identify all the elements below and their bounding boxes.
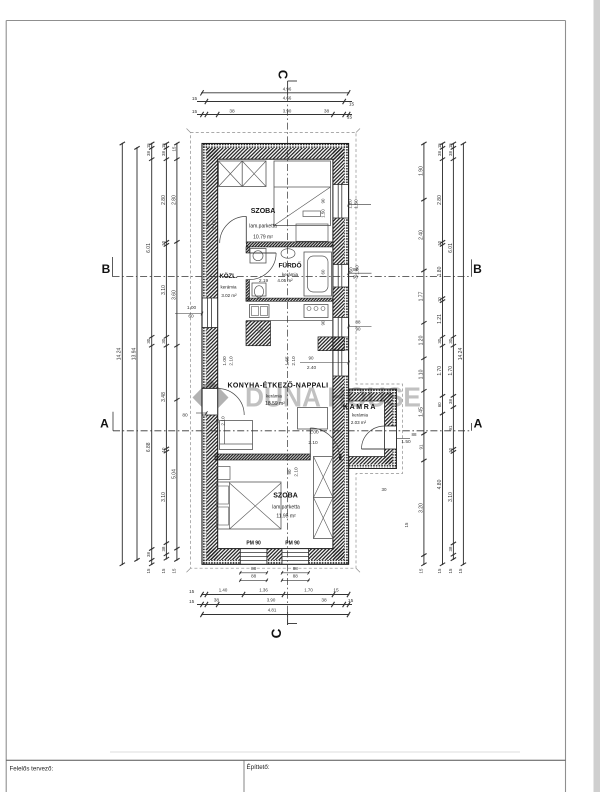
svg-text:Építtető:: Építtető: xyxy=(247,764,270,771)
svg-text:6.01: 6.01 xyxy=(448,243,454,253)
svg-text:15: 15 xyxy=(458,568,463,573)
svg-text:38: 38 xyxy=(321,598,327,604)
svg-text:14.24: 14.24 xyxy=(458,348,464,361)
svg-text:15: 15 xyxy=(448,568,453,573)
svg-text:1.70: 1.70 xyxy=(448,366,454,376)
svg-text:2.80: 2.80 xyxy=(171,195,177,205)
svg-text:88: 88 xyxy=(355,320,361,325)
svg-text:38: 38 xyxy=(324,108,330,114)
svg-text:1.00: 1.00 xyxy=(309,430,319,436)
svg-text:90: 90 xyxy=(287,469,292,475)
svg-text:91: 91 xyxy=(418,444,423,449)
svg-text:88: 88 xyxy=(293,574,299,579)
svg-text:1.00: 1.00 xyxy=(187,305,197,311)
svg-text:2.10: 2.10 xyxy=(221,416,227,426)
svg-text:15: 15 xyxy=(347,115,353,121)
svg-text:30: 30 xyxy=(437,338,442,343)
svg-text:38: 38 xyxy=(448,399,453,404)
svg-text:15: 15 xyxy=(161,568,166,573)
svg-text:90: 90 xyxy=(321,198,326,203)
svg-text:90: 90 xyxy=(355,327,361,332)
svg-text:KONYHA-ÉTKEZŐ-NAPPALI: KONYHA-ÉTKEZŐ-NAPPALI xyxy=(228,381,329,390)
svg-text:2.10: 2.10 xyxy=(308,440,318,446)
svg-text:15: 15 xyxy=(171,568,176,573)
svg-text:3.10: 3.10 xyxy=(161,285,167,295)
svg-text:15: 15 xyxy=(418,568,423,573)
svg-text:2.40: 2.40 xyxy=(307,365,317,371)
svg-text:38: 38 xyxy=(146,552,151,557)
svg-text:3.10: 3.10 xyxy=(448,492,454,502)
svg-text:15: 15 xyxy=(448,143,453,148)
svg-text:1.50: 1.50 xyxy=(401,439,411,445)
svg-text:30: 30 xyxy=(448,338,453,343)
svg-text:88: 88 xyxy=(251,574,257,579)
svg-text:15: 15 xyxy=(348,598,354,604)
svg-text:A: A xyxy=(100,417,109,431)
svg-text:38: 38 xyxy=(448,546,453,551)
svg-text:15: 15 xyxy=(189,589,195,595)
svg-text:A: A xyxy=(474,417,483,431)
svg-text:lam.parketta: lam.parketta xyxy=(249,224,277,230)
svg-text:4.66: 4.66 xyxy=(283,95,292,100)
svg-text:88: 88 xyxy=(251,566,257,571)
svg-text:C: C xyxy=(269,628,284,638)
svg-text:30: 30 xyxy=(146,338,151,343)
svg-text:KÖZL.: KÖZL. xyxy=(220,273,238,280)
svg-text:1.77: 1.77 xyxy=(418,291,424,301)
svg-text:2.10: 2.10 xyxy=(294,467,300,477)
svg-text:88: 88 xyxy=(411,432,417,437)
svg-text:1.65: 1.65 xyxy=(285,356,291,366)
svg-text:3.02 m²: 3.02 m² xyxy=(221,293,237,298)
svg-text:15: 15 xyxy=(404,522,409,527)
svg-text:88: 88 xyxy=(293,566,299,571)
svg-text:15: 15 xyxy=(349,102,355,108)
svg-text:10: 10 xyxy=(437,297,442,302)
svg-text:60: 60 xyxy=(188,314,194,320)
svg-text:38: 38 xyxy=(448,151,453,156)
svg-text:10.79 m²: 10.79 m² xyxy=(253,235,273,241)
svg-text:10: 10 xyxy=(161,447,166,452)
svg-text:90: 90 xyxy=(321,320,326,325)
svg-text:3.90: 3.90 xyxy=(267,598,276,603)
svg-text:lam.parketta: lam.parketta xyxy=(272,505,300,511)
svg-text:15: 15 xyxy=(333,588,339,594)
svg-text:4.05 m²: 4.05 m² xyxy=(277,278,293,283)
svg-text:11.95 m²: 11.95 m² xyxy=(276,514,296,520)
svg-text:1.70: 1.70 xyxy=(437,366,443,376)
svg-text:90: 90 xyxy=(206,222,211,228)
svg-text:15: 15 xyxy=(437,568,442,573)
svg-text:60: 60 xyxy=(437,402,442,407)
svg-text:30: 30 xyxy=(381,487,387,492)
svg-text:Felelős tervező:: Felelős tervező: xyxy=(10,766,54,773)
svg-text:4.96: 4.96 xyxy=(283,87,292,92)
svg-text:15: 15 xyxy=(161,143,166,148)
svg-text:C: C xyxy=(276,70,291,79)
svg-text:1.10: 1.10 xyxy=(418,369,424,379)
svg-text:1.20: 1.20 xyxy=(418,335,424,345)
svg-text:15: 15 xyxy=(189,599,195,605)
svg-text:90: 90 xyxy=(215,418,220,424)
svg-text:15: 15 xyxy=(192,109,198,115)
svg-text:38: 38 xyxy=(214,598,220,604)
svg-text:4.81: 4.81 xyxy=(268,607,277,612)
svg-text:5.04: 5.04 xyxy=(171,469,177,479)
svg-text:1.90: 1.90 xyxy=(418,166,424,176)
svg-text:38: 38 xyxy=(161,546,166,551)
svg-text:1.21: 1.21 xyxy=(437,314,443,324)
svg-text:90: 90 xyxy=(308,356,314,361)
svg-text:14.24: 14.24 xyxy=(117,348,123,361)
svg-text:6.88: 6.88 xyxy=(146,442,152,452)
svg-text:15: 15 xyxy=(437,143,442,148)
svg-text:2.40: 2.40 xyxy=(418,230,424,240)
svg-text:15: 15 xyxy=(146,143,151,148)
svg-text:91: 91 xyxy=(448,425,453,430)
svg-text:15: 15 xyxy=(192,96,198,102)
svg-text:3.48: 3.48 xyxy=(161,392,167,402)
svg-text:13.94: 13.94 xyxy=(131,348,137,361)
svg-text:10: 10 xyxy=(161,240,166,245)
svg-text:3.20: 3.20 xyxy=(418,503,424,513)
svg-text:1.70: 1.70 xyxy=(304,588,313,593)
svg-text:PM 90: PM 90 xyxy=(285,541,300,547)
svg-text:1.50: 1.50 xyxy=(354,199,360,209)
svg-text:4.80: 4.80 xyxy=(437,479,443,489)
svg-text:80: 80 xyxy=(182,413,188,419)
svg-text:38: 38 xyxy=(146,151,151,156)
svg-text:2.19: 2.19 xyxy=(259,278,269,284)
svg-text:10: 10 xyxy=(437,240,442,245)
svg-text:2.10: 2.10 xyxy=(291,356,297,366)
svg-text:KAMRA: KAMRA xyxy=(343,404,377,411)
svg-text:1.00: 1.00 xyxy=(222,356,228,366)
svg-text:SZOBA: SZOBA xyxy=(273,493,298,500)
svg-text:1.45: 1.45 xyxy=(418,407,424,417)
svg-text:38: 38 xyxy=(161,151,166,156)
svg-text:kerámia: kerámia xyxy=(352,413,369,418)
svg-text:2.80: 2.80 xyxy=(437,195,443,205)
svg-text:60: 60 xyxy=(321,269,326,274)
svg-text:PM 90: PM 90 xyxy=(246,541,261,547)
svg-text:SZOBA: SZOBA xyxy=(251,208,276,215)
svg-text:FÜRDŐ: FÜRDŐ xyxy=(278,261,301,270)
svg-text:2.80: 2.80 xyxy=(161,195,167,205)
svg-text:B: B xyxy=(473,262,482,276)
svg-text:1.50: 1.50 xyxy=(321,209,326,218)
svg-text:3.10: 3.10 xyxy=(161,492,167,502)
svg-text:1.40: 1.40 xyxy=(219,588,228,593)
svg-text:6.01: 6.01 xyxy=(146,243,152,253)
svg-text:kerámia: kerámia xyxy=(282,272,299,277)
svg-text:3.60: 3.60 xyxy=(171,290,177,300)
svg-text:B: B xyxy=(102,262,111,276)
svg-text:1.80: 1.80 xyxy=(437,266,443,276)
svg-text:90: 90 xyxy=(353,275,359,280)
svg-text:88: 88 xyxy=(353,267,359,272)
svg-text:38: 38 xyxy=(229,108,235,114)
svg-text:30: 30 xyxy=(161,338,166,343)
svg-text:kerámia: kerámia xyxy=(266,394,283,399)
svg-text:10: 10 xyxy=(448,447,453,452)
svg-text:2.10: 2.10 xyxy=(229,356,235,366)
svg-text:2.03 m²: 2.03 m² xyxy=(351,420,367,425)
svg-text:15: 15 xyxy=(171,146,176,151)
svg-text:2.10: 2.10 xyxy=(212,220,218,230)
svg-text:18.59 m²: 18.59 m² xyxy=(265,401,285,407)
svg-text:1.36: 1.36 xyxy=(259,588,268,593)
svg-text:3.90: 3.90 xyxy=(283,108,292,113)
svg-text:kerámia: kerámia xyxy=(220,285,237,290)
svg-text:38: 38 xyxy=(437,151,442,156)
svg-text:15: 15 xyxy=(146,568,151,573)
